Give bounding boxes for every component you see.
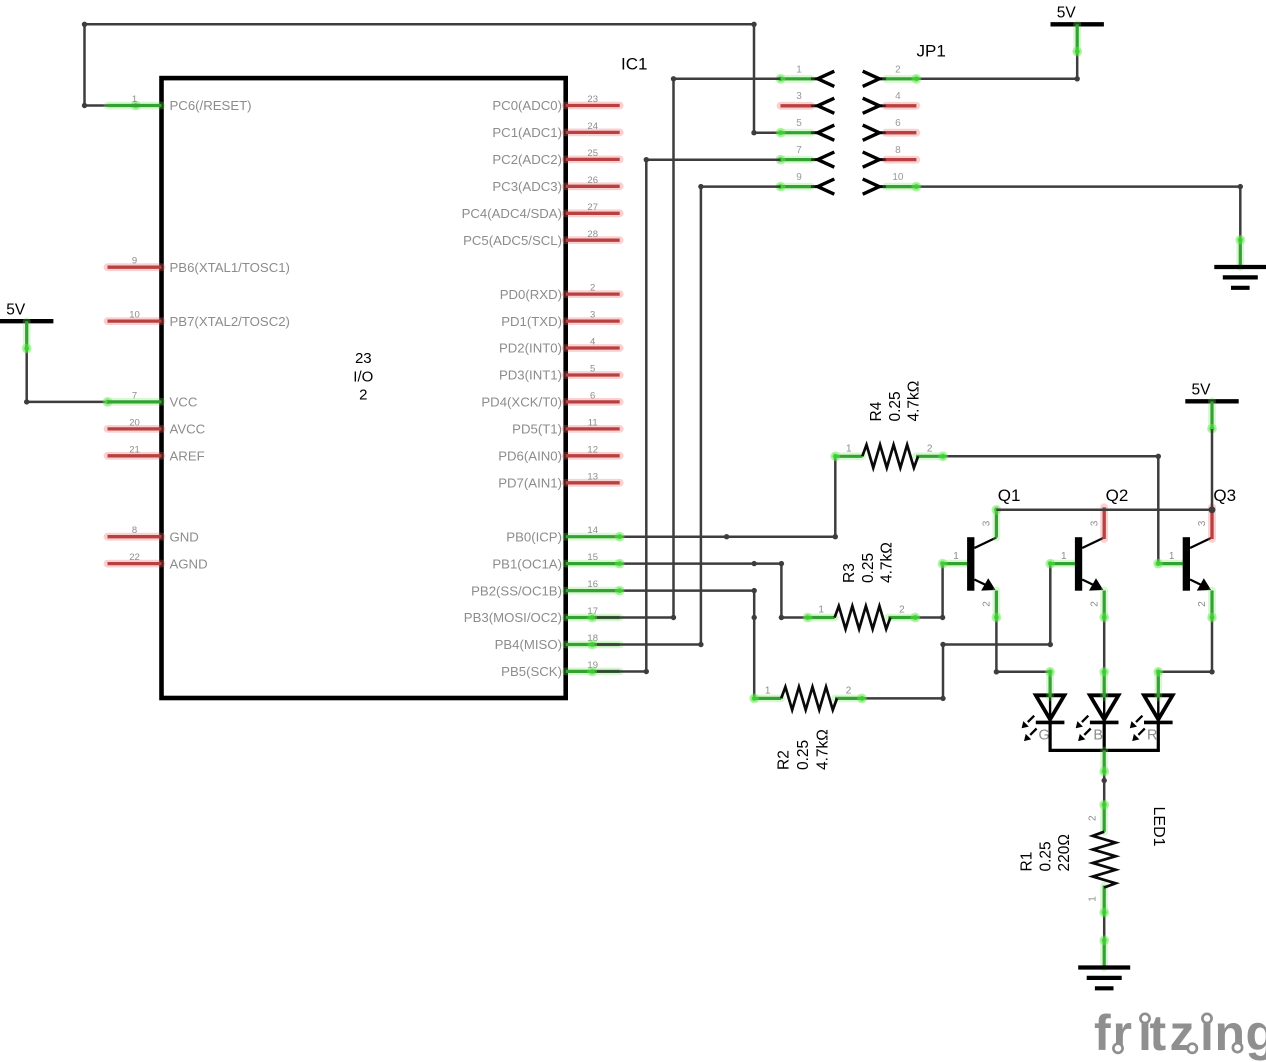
svg-text:3: 3 <box>1089 520 1100 526</box>
svg-text:Q2: Q2 <box>1106 486 1129 505</box>
wire JP1 pin9 to PB4(MISO) <box>587 184 780 649</box>
svg-text:R1: R1 <box>1019 852 1036 872</box>
IC1 reference label <box>621 55 647 74</box>
power 5V supply (left, VCC) <box>0 301 53 353</box>
svg-text:PD4(XCK/T0): PD4(XCK/T0) <box>481 395 562 410</box>
svg-text:0.25: 0.25 <box>860 553 877 583</box>
svg-text:VCC: VCC <box>170 395 198 410</box>
wire JP1 pin1 to PB3(MOSI/OC2) <box>587 76 780 622</box>
ground symbol (bottom, LED cathode via R1) <box>1078 935 1130 988</box>
IC1 right pin 18 PB4(MISO) <box>495 633 620 652</box>
svg-text:PB0(ICP): PB0(ICP) <box>506 529 562 544</box>
svg-text:5V: 5V <box>6 301 26 318</box>
svg-text:PC0(ADC0): PC0(ADC0) <box>492 98 562 113</box>
svg-text:I/O: I/O <box>353 369 373 386</box>
svg-text:4.7kΩ: 4.7kΩ <box>815 729 832 770</box>
svg-text:4.7kΩ: 4.7kΩ <box>906 381 923 422</box>
svg-text:AGND: AGND <box>170 556 208 571</box>
wire R1 pin1 to ground <box>1103 913 1106 941</box>
svg-text:1: 1 <box>818 605 824 616</box>
fritzing watermark logo <box>1094 1005 1266 1061</box>
connector JP1 pin 6 <box>863 118 917 140</box>
svg-text:PB3(MOSI/OC2): PB3(MOSI/OC2) <box>464 610 562 625</box>
IC1 right pin 5 PD3(INT1) <box>499 364 620 383</box>
IC IC1 ATmega body <box>162 78 566 698</box>
connector JP1 pin 5 <box>776 118 835 140</box>
svg-text:0.25: 0.25 <box>795 740 812 770</box>
svg-text:8: 8 <box>895 145 901 156</box>
svg-text:6: 6 <box>895 118 901 129</box>
wire Q1 emitter to LED1 green anode <box>994 618 1050 675</box>
svg-text:Q3: Q3 <box>1213 486 1236 505</box>
IC1 left pin 7 VCC <box>108 390 198 409</box>
svg-text:1: 1 <box>1088 896 1099 902</box>
IC1 right pin 3 PD1(TXD) <box>501 310 620 329</box>
svg-text:G: G <box>1038 728 1049 744</box>
svg-text:4.7kΩ: 4.7kΩ <box>879 542 896 583</box>
svg-text:7: 7 <box>132 390 137 401</box>
svg-text:PB1(OC1A): PB1(OC1A) <box>492 556 562 571</box>
wire PB0(ICP) to R4 pin1 <box>620 456 838 539</box>
svg-text:9: 9 <box>132 256 137 267</box>
svg-text:6: 6 <box>590 390 595 401</box>
IC1 right pin 16 PB2(SS/OC1B) <box>471 579 624 598</box>
svg-text:1: 1 <box>846 443 852 454</box>
connector JP1 pin 2 <box>863 64 922 86</box>
svg-text:1: 1 <box>1169 551 1175 562</box>
svg-text:3: 3 <box>1197 520 1208 526</box>
svg-text:220Ω: 220Ω <box>1056 834 1073 871</box>
LED1 common cathode bus <box>1050 722 1158 776</box>
svg-text:Q1: Q1 <box>998 486 1021 505</box>
connector JP1 pin 7 <box>776 145 835 167</box>
svg-text:PC1(ADC1): PC1(ADC1) <box>492 125 562 140</box>
svg-text:1: 1 <box>132 94 137 105</box>
svg-text:AREF: AREF <box>170 449 205 464</box>
svg-text:PC5(ADC5/SCL): PC5(ADC5/SCL) <box>463 233 562 248</box>
IC1 left pin 21 AREF <box>108 444 205 463</box>
IC1 right pin 4 PD2(INT0) <box>499 337 620 356</box>
svg-text:PB7(XTAL2/TOSC2): PB7(XTAL2/TOSC2) <box>170 314 290 329</box>
svg-text:14: 14 <box>587 525 598 536</box>
connector JP1 pin 9 <box>776 172 835 194</box>
svg-text:3: 3 <box>590 310 595 321</box>
svg-text:5: 5 <box>796 118 802 129</box>
LED1 blue element <box>1076 667 1119 744</box>
LED1 reference label <box>1150 807 1167 847</box>
svg-text:R4: R4 <box>868 401 885 421</box>
svg-text:26: 26 <box>587 175 598 186</box>
svg-text:9: 9 <box>796 172 802 183</box>
connector JP1 pin 10 <box>863 172 922 194</box>
svg-text:2: 2 <box>982 601 993 607</box>
IC1 right pin 26 PC3(ADC3) <box>492 175 619 194</box>
wire R2 pin2 to Q2 base <box>862 564 1053 702</box>
IC1 right pin 11 PD5(T1) <box>512 417 620 436</box>
IC1 right pin 2 PD0(RXD) <box>500 283 620 302</box>
svg-text:13: 13 <box>587 471 598 482</box>
svg-text:23: 23 <box>587 94 598 105</box>
IC1 right pin 27 PC4(ADC4/SDA) <box>462 202 620 221</box>
svg-text:2: 2 <box>1197 601 1208 607</box>
resistor R4 label 0.25 4.7kOhm <box>868 381 923 422</box>
svg-text:f: f <box>1094 1005 1111 1061</box>
svg-text:IC1: IC1 <box>621 55 647 74</box>
svg-text:3: 3 <box>982 520 993 526</box>
svg-text:1: 1 <box>953 551 959 562</box>
svg-text:R3: R3 <box>841 563 858 583</box>
svg-text:2: 2 <box>899 605 905 616</box>
IC1 right pin 24 PC1(ADC1) <box>492 121 619 140</box>
svg-text:PD2(INT0): PD2(INT0) <box>499 341 562 356</box>
svg-text:11: 11 <box>588 417 598 428</box>
svg-text:PB2(SS/OC1B): PB2(SS/OC1B) <box>471 583 562 598</box>
LED1 red element <box>1130 667 1173 744</box>
IC1 right pin 23 PC0(ADC0) <box>492 94 619 113</box>
wire Q3 emitter to LED1 red anode <box>1158 618 1214 675</box>
svg-text:PD5(T1): PD5(T1) <box>512 422 562 437</box>
wire 5V to Q1 collector <box>996 429 1215 513</box>
power 5V supply (top right, JP1 pin2) <box>1051 5 1104 57</box>
IC1 right pin 13 PD7(AIN1) <box>498 471 619 490</box>
svg-text:2: 2 <box>1088 815 1099 821</box>
connector JP1 label <box>917 42 946 61</box>
transistor Q1 NPN <box>938 486 1021 622</box>
svg-text:2: 2 <box>846 685 852 696</box>
svg-text:g: g <box>1246 1005 1266 1061</box>
svg-text:2: 2 <box>895 64 901 75</box>
wire JP1 pin7 to PB5(SCK) <box>587 157 780 676</box>
transistor Q3 NPN <box>1153 486 1236 622</box>
IC1 right pin 28 PC5(ADC5/SCL) <box>463 229 620 248</box>
resistor R2 body <box>749 685 867 710</box>
IC1 left pin 1 PC6(/RESET) <box>108 94 252 113</box>
svg-text:R2: R2 <box>776 750 793 770</box>
svg-text:4: 4 <box>590 337 595 348</box>
svg-text:27: 27 <box>587 202 598 213</box>
wire PB1(OC1A) to R3 pin1 <box>620 561 808 620</box>
svg-text:7: 7 <box>796 145 802 156</box>
wire R3 pin2 to Q1 base <box>915 564 945 621</box>
svg-text:PD3(INT1): PD3(INT1) <box>499 368 562 383</box>
svg-text:PD6(AIN0): PD6(AIN0) <box>498 449 562 464</box>
connector JP1 pin 1 <box>776 64 835 86</box>
IC1 right pin 19 PB5(SCK) <box>501 660 620 679</box>
svg-text:22: 22 <box>129 552 140 563</box>
svg-text:5V: 5V <box>1192 382 1212 399</box>
wire Q2 emitter to LED1 blue anode <box>1103 618 1106 672</box>
resistor R1 label 0.25 220Ohm <box>1019 834 1074 871</box>
IC1 right pin 15 PB1(OC1A) <box>492 552 624 571</box>
wire PB2(SS/OC1B) to R2 pin1 <box>620 588 757 699</box>
svg-text:PC3(ADC3): PC3(ADC3) <box>492 179 562 194</box>
svg-text:2: 2 <box>927 443 933 454</box>
IC1 right pin 25 PC2(ADC2) <box>492 148 619 167</box>
connector JP1 pin 3 <box>781 91 835 113</box>
svg-text:2: 2 <box>590 283 595 294</box>
svg-text:8: 8 <box>132 525 137 536</box>
IC1 right pin 14 PB0(ICP) <box>506 525 624 544</box>
svg-text:AVCC: AVCC <box>170 422 206 437</box>
svg-text:PD7(AIN1): PD7(AIN1) <box>498 476 562 491</box>
IC1 right pin 17 PB3(MOSI/OC2) <box>464 606 620 625</box>
svg-text:1: 1 <box>1061 551 1067 562</box>
IC1 left pin 9 PB6(XTAL1/TOSC1) <box>108 256 290 275</box>
svg-text:0.25: 0.25 <box>887 391 904 421</box>
svg-text:PC2(ADC2): PC2(ADC2) <box>492 152 562 167</box>
svg-text:t: t <box>1150 1005 1167 1061</box>
svg-text:5V: 5V <box>1057 5 1077 22</box>
svg-text:2: 2 <box>359 387 367 404</box>
svg-text:28: 28 <box>587 229 598 240</box>
svg-text:16: 16 <box>587 579 598 590</box>
IC1 left pin 8 GND <box>108 525 199 544</box>
svg-text:JP1: JP1 <box>917 42 946 61</box>
wire LED1 cathode to R1 pin2 <box>1102 772 1107 805</box>
wire R4 pin2 to Q3 base <box>943 454 1161 564</box>
LED1 green element <box>1022 667 1065 744</box>
svg-text:PB6(XTAL1/TOSC1): PB6(XTAL1/TOSC1) <box>170 260 290 275</box>
svg-text:21: 21 <box>129 444 140 455</box>
svg-text:3: 3 <box>796 91 802 102</box>
svg-text:GND: GND <box>170 529 199 544</box>
svg-text:PC6(/RESET): PC6(/RESET) <box>170 98 252 113</box>
connector JP1 pin 4 <box>863 91 917 113</box>
svg-text:PB5(SCK): PB5(SCK) <box>501 664 562 679</box>
wire JP1 pin2 to 5V <box>916 53 1080 81</box>
svg-text:0.25: 0.25 <box>1038 841 1055 871</box>
svg-text:PB4(MISO): PB4(MISO) <box>495 637 562 652</box>
svg-text:PD0(RXD): PD0(RXD) <box>500 287 562 302</box>
IC1 right pin 6 PD4(XCK/T0) <box>481 390 619 409</box>
svg-text:23: 23 <box>355 350 372 367</box>
IC1 left pin 20 AVCC <box>108 417 206 436</box>
svg-text:10: 10 <box>892 172 904 183</box>
connector JP1 pin 8 <box>863 145 917 167</box>
svg-text:1: 1 <box>765 685 771 696</box>
IC1 left pin 10 PB7(XTAL2/TOSC2) <box>108 310 290 329</box>
svg-text:12: 12 <box>587 444 598 455</box>
resistor R1 body <box>1088 800 1116 918</box>
svg-text:24: 24 <box>587 121 598 132</box>
transistor Q2 NPN <box>1045 486 1128 622</box>
IC1 right pin 12 PD6(AIN0) <box>498 444 619 463</box>
ground symbol (right, JP1 pin10) <box>1214 235 1266 288</box>
svg-text:1: 1 <box>796 64 802 75</box>
wire PC6(/RESET) to JP1 pin5 <box>82 22 781 136</box>
svg-text:20: 20 <box>129 417 140 428</box>
svg-text:PC4(ADC4/SDA): PC4(ADC4/SDA) <box>462 206 562 221</box>
svg-text:B: B <box>1093 728 1103 744</box>
svg-text:PD1(TXD): PD1(TXD) <box>501 314 562 329</box>
wire JP1 pin10 to ground <box>916 184 1243 240</box>
svg-text:2: 2 <box>1089 601 1100 607</box>
resistor R3 label 0.25 4.7kOhm <box>841 542 896 583</box>
svg-text:25: 25 <box>587 148 598 159</box>
resistor R2 label 0.25 4.7kOhm <box>776 729 832 770</box>
power 5V supply (right, transistor collectors) <box>1185 382 1238 434</box>
resistor R4 body <box>830 443 948 468</box>
svg-text:10: 10 <box>129 310 140 321</box>
resistor R3 body <box>803 605 921 630</box>
wire 5V to VCC <box>24 349 112 407</box>
svg-text:15: 15 <box>587 552 598 563</box>
svg-text:R: R <box>1147 728 1157 744</box>
svg-text:4: 4 <box>895 91 901 102</box>
svg-text:5: 5 <box>590 364 595 375</box>
svg-text:LED1: LED1 <box>1150 807 1167 847</box>
IC1 left pin 22 AGND <box>108 552 208 571</box>
